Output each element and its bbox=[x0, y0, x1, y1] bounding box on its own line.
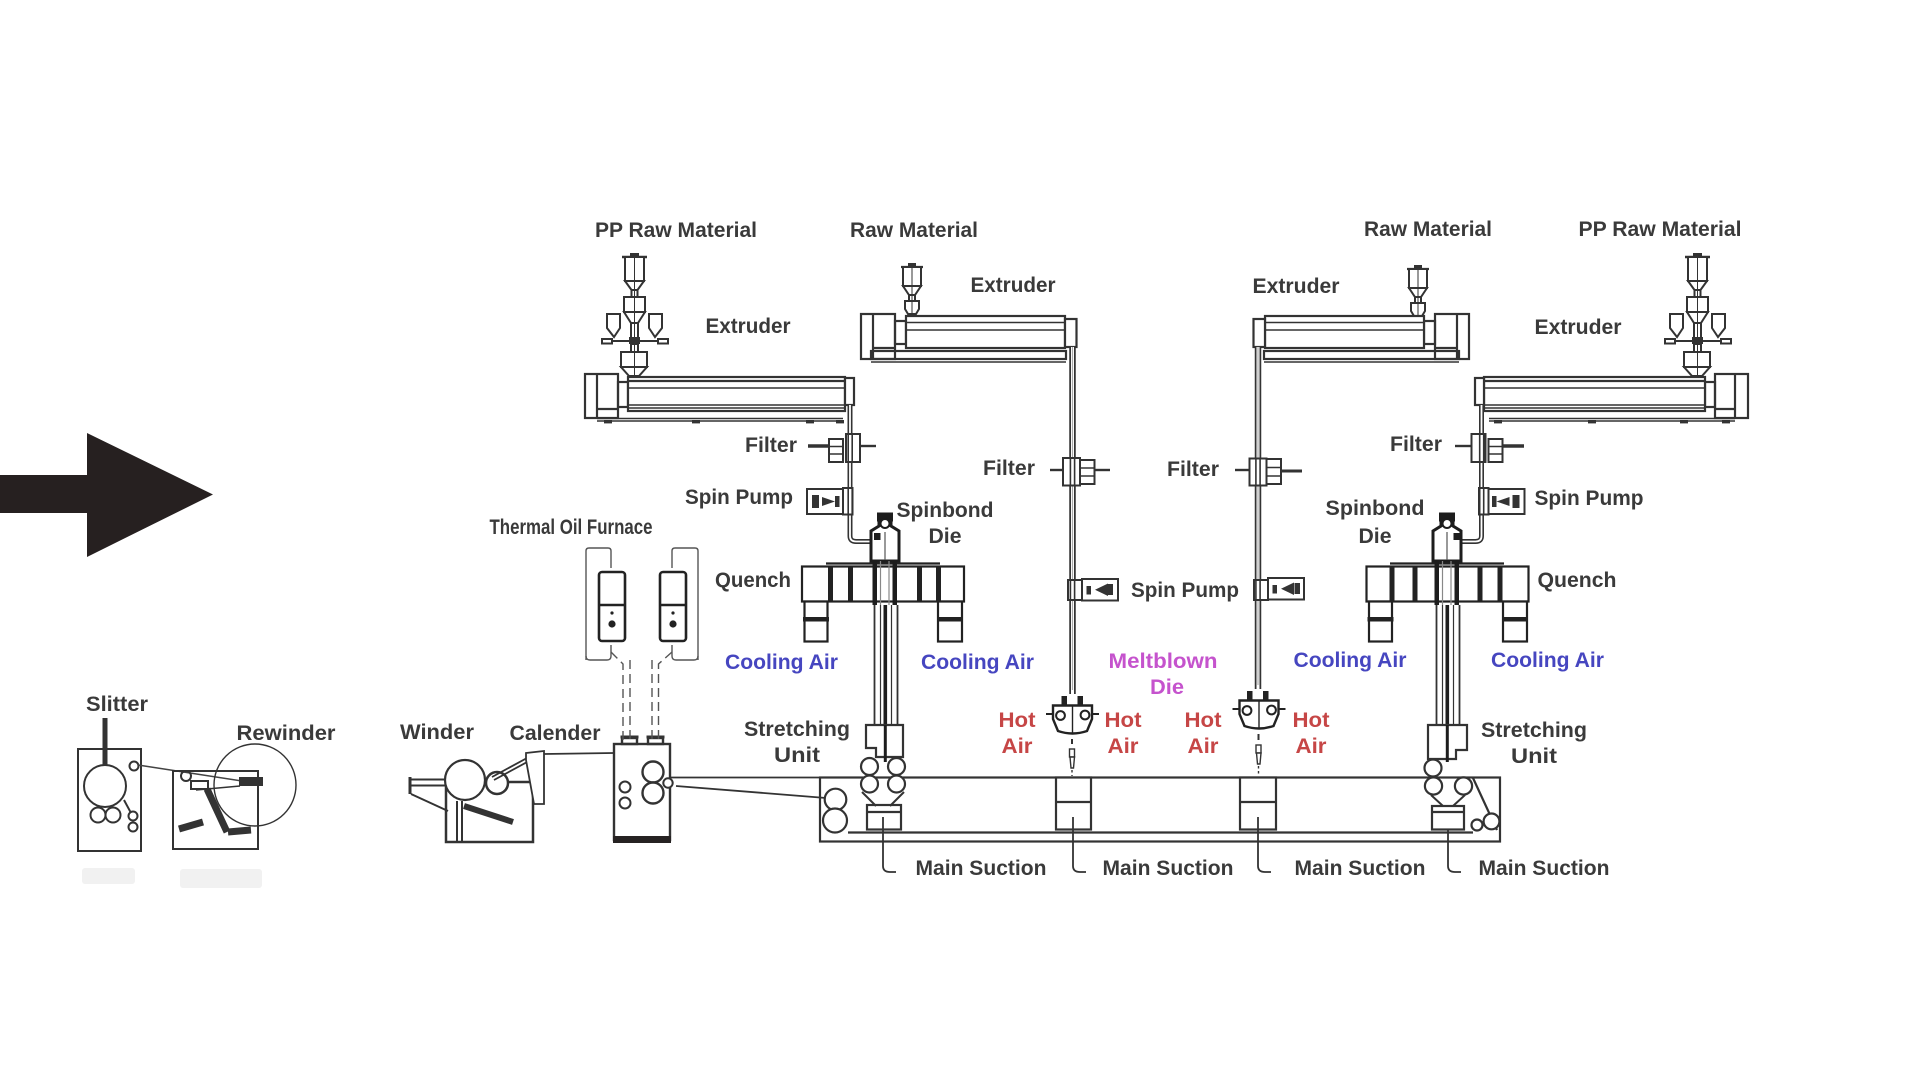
spin pump meltblown 1 bbox=[1068, 579, 1118, 601]
svg-text:Stretching: Stretching bbox=[1481, 718, 1587, 742]
svg-text:Spin Pump: Spin Pump bbox=[1535, 486, 1644, 510]
svg-text:Main Suction: Main Suction bbox=[1103, 856, 1234, 880]
svg-text:Spinbond: Spinbond bbox=[1326, 496, 1425, 520]
thermal oil furnace left frame bbox=[586, 548, 630, 742]
PP feeder hopper assembly left bbox=[602, 253, 668, 376]
svg-text:Hot: Hot bbox=[999, 708, 1036, 732]
svg-text:Air: Air bbox=[1188, 734, 1220, 758]
spin pump meltblown 2 bbox=[1254, 578, 1304, 600]
svg-text:Filter: Filter bbox=[983, 456, 1036, 480]
svg-text:Main Suction: Main Suction bbox=[1295, 856, 1426, 880]
slitter machine bbox=[78, 718, 141, 851]
svg-text:Main Suction: Main Suction bbox=[1479, 856, 1610, 880]
conveyor right end wrap bbox=[1472, 778, 1500, 831]
melt pipe meltblown 2 bbox=[1255, 347, 1262, 689]
svg-text:Hot: Hot bbox=[1293, 708, 1330, 732]
main suction leader 4 bbox=[1448, 830, 1461, 872]
svg-text:Winder: Winder bbox=[400, 720, 475, 744]
main suction box 3 (meltblown 2) bbox=[1240, 778, 1276, 830]
svg-text:Air: Air bbox=[1002, 734, 1034, 758]
svg-text:Air: Air bbox=[1296, 734, 1328, 758]
svg-text:Spin Pump: Spin Pump bbox=[685, 485, 793, 509]
filament meltblown 1 bbox=[1070, 739, 1075, 776]
svg-text:Stretching: Stretching bbox=[744, 717, 850, 741]
filter meltblown 2 bbox=[1235, 459, 1302, 486]
filament meltblown 2 bbox=[1256, 734, 1261, 776]
extruder meltblown 1 bbox=[861, 314, 1077, 362]
melt pipe meltblown 1 bbox=[1069, 347, 1076, 694]
svg-text:Cooling Air: Cooling Air bbox=[725, 650, 839, 674]
extruder feet left bbox=[604, 420, 844, 423]
svg-text:Quench: Quench bbox=[1538, 568, 1617, 592]
extruder left (spunbond) bbox=[585, 374, 854, 421]
main suction leader 3 bbox=[1258, 817, 1271, 872]
ghost watermark remnants bbox=[82, 868, 262, 888]
svg-text:Spinbond: Spinbond bbox=[897, 498, 994, 522]
rewinder machine bbox=[173, 744, 296, 849]
conveyor frame bbox=[820, 778, 1500, 842]
svg-text:PP Raw Material: PP Raw Material bbox=[1579, 217, 1742, 241]
stretching unit box right bbox=[1428, 725, 1467, 762]
svg-text:Cooling Air: Cooling Air bbox=[1491, 648, 1605, 672]
spinbond die left bbox=[871, 514, 899, 561]
spin pump right spunbond bbox=[1479, 488, 1525, 515]
svg-text:Die: Die bbox=[929, 524, 962, 548]
winder machine bbox=[410, 760, 533, 842]
quench outlet stubs right bbox=[1368, 602, 1529, 642]
svg-text:Quench: Quench bbox=[715, 568, 791, 592]
melt pipe right spunbond bbox=[1461, 405, 1482, 542]
quench outlet stubs left bbox=[803, 602, 963, 642]
hopper meltblown 2 bbox=[1407, 265, 1429, 316]
svg-text:Extruder: Extruder bbox=[1535, 315, 1623, 339]
melt pipe left spunbond bbox=[850, 405, 871, 542]
stretch tube left bbox=[875, 605, 898, 757]
svg-text:Unit: Unit bbox=[1511, 744, 1557, 768]
filter left spunbond bbox=[808, 434, 876, 462]
web line slitter to rewinder bbox=[138, 765, 255, 783]
svg-text:Meltblown: Meltblown bbox=[1109, 649, 1218, 673]
svg-text:Cooling Air: Cooling Air bbox=[1294, 648, 1408, 672]
main suction box 1 (spunbond left) bbox=[867, 805, 901, 830]
svg-text:Air: Air bbox=[1108, 734, 1140, 758]
main suction leader 2 bbox=[1073, 817, 1086, 872]
spin pump left spunbond bbox=[807, 488, 853, 515]
svg-text:PP Raw Material: PP Raw Material bbox=[595, 218, 757, 242]
extruder feet right bbox=[1494, 420, 1730, 423]
quench assembly right bbox=[1367, 564, 1529, 602]
thermal oil furnace right frame bbox=[652, 548, 698, 742]
PP feeder hopper assembly right bbox=[1665, 253, 1731, 376]
main suction box 2 (meltblown 1) bbox=[1056, 778, 1091, 830]
svg-text:Filter: Filter bbox=[1167, 457, 1220, 481]
svg-text:Raw Material: Raw Material bbox=[1364, 217, 1492, 241]
calender machine bbox=[613, 736, 673, 844]
spinbond die right bbox=[1433, 514, 1461, 561]
svg-text:Die: Die bbox=[1359, 524, 1392, 548]
svg-text:Rewinder: Rewinder bbox=[237, 721, 337, 745]
svg-text:Slitter: Slitter bbox=[86, 692, 149, 716]
main suction box 4 (spunbond right) bbox=[1432, 806, 1464, 830]
main suction leader 1 bbox=[883, 817, 896, 872]
svg-text:Extruder: Extruder bbox=[971, 273, 1057, 297]
svg-text:Spin Pump: Spin Pump bbox=[1131, 578, 1239, 602]
pipe lines through filter and pump blocks bbox=[848, 434, 1483, 600]
extruder right (spunbond) bbox=[1475, 374, 1748, 421]
svg-text:Filter: Filter bbox=[745, 433, 798, 457]
meltblown die head 2 bbox=[1233, 691, 1286, 729]
stretching rollers left bbox=[861, 758, 905, 806]
thermal oil furnace unit 2 bbox=[660, 572, 686, 641]
die channel through quench right bbox=[1435, 561, 1460, 605]
calender infeed ramp bbox=[492, 751, 614, 804]
svg-text:Extruder: Extruder bbox=[706, 314, 792, 338]
filter meltblown 1 bbox=[1050, 458, 1110, 486]
stretching unit box left bbox=[866, 725, 903, 762]
svg-text:Main Suction: Main Suction bbox=[916, 856, 1047, 880]
stretching rollers right bbox=[1425, 760, 1473, 807]
die channel through quench left bbox=[873, 561, 898, 605]
meltblown die head 1 bbox=[1046, 696, 1099, 734]
filter right spunbond bbox=[1455, 434, 1524, 462]
stretch tube right bbox=[1437, 605, 1460, 757]
svg-text:Hot: Hot bbox=[1105, 708, 1142, 732]
extruder meltblown 2 bbox=[1254, 314, 1470, 362]
svg-text:Thermal Oil Furnace: Thermal Oil Furnace bbox=[490, 515, 653, 539]
hopper meltblown 1 bbox=[901, 263, 923, 314]
conveyor left end rollers bbox=[823, 789, 847, 833]
thermal oil furnace unit 1 bbox=[599, 572, 625, 641]
big black process arrow bbox=[0, 433, 213, 557]
svg-text:Unit: Unit bbox=[774, 743, 820, 767]
web line calender to conveyor bbox=[670, 778, 826, 799]
svg-text:Filter: Filter bbox=[1390, 432, 1443, 456]
quench assembly left bbox=[802, 564, 964, 602]
svg-text:Raw Material: Raw Material bbox=[850, 218, 978, 242]
svg-text:Hot: Hot bbox=[1185, 708, 1222, 732]
svg-text:Extruder: Extruder bbox=[1253, 274, 1341, 298]
svg-text:Calender: Calender bbox=[510, 721, 602, 745]
svg-text:Cooling Air: Cooling Air bbox=[921, 650, 1035, 674]
svg-text:Die: Die bbox=[1150, 675, 1184, 699]
